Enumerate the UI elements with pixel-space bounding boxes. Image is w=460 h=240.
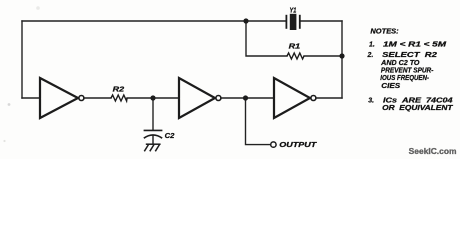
wire: R1 left drop from node B [246,21,287,56]
wire: R2 to inv2 input [127,97,179,99]
svg-text:NOTES:: NOTES: [370,28,398,35]
svg-text:2.: 2. [367,52,374,59]
op-amp U3 inverter 3 [274,78,316,118]
svg-text:CIES: CIES [381,83,400,90]
op-amp U2 inverter 2 [179,78,221,118]
crystal Y1 [286,14,299,30]
resistor R2 [111,95,127,101]
svg-text:IOUS FREQUEN-: IOUS FREQUEN- [380,75,429,82]
svg-text:SeekIC.com: SeekIC.com [409,146,457,156]
wire: right vertical (crystal net to inv3 output) [341,21,343,98]
output terminal [271,142,276,147]
svg-text:R2: R2 [113,86,125,93]
svg-text:AND C2 TO: AND C2 TO [380,60,420,67]
notes text block [367,28,454,112]
svg-text:R1: R1 [289,44,301,51]
wire: output tap down and right [246,98,271,145]
svg-text:Y1: Y1 [290,7,297,14]
wire: R1 right lead [304,55,342,57]
svg-text:1M < R1 < 5M: 1M < R1 < 5M [383,41,446,48]
wire: C2 branch down [152,98,154,130]
capacitor C2 [144,130,163,144]
node E junction (inv3 input / output tap) [243,95,248,100]
wire: top feedback horizontal [22,20,286,22]
scan speck [3,140,5,142]
svg-text:ICs ARE 74C04: ICs ARE 74C04 [383,98,453,105]
node B junction (crystal net left) [243,18,248,23]
svg-text:3.: 3. [368,98,374,105]
wire: inv1 output to R2 [84,97,111,99]
svg-text:PREVENT SPUR-: PREVENT SPUR- [381,68,434,75]
svg-text:OUTPUT: OUTPUT [279,142,317,149]
wire: inv2 output to inv3 input [221,97,274,99]
svg-text:OR EQUIVALENT: OR EQUIVALENT [382,105,453,112]
scan speck [36,6,40,10]
wire: inv3 output to right vertical [316,97,342,99]
ground [144,144,160,151]
wire: left feedback vertical [21,21,23,98]
wire: crystal right lead to top-right corner [300,20,342,22]
wire: inv1 input [22,97,40,99]
node D junction (R2 / C2) [150,95,155,100]
scan speck [8,103,11,106]
svg-text:1.: 1. [369,41,375,48]
svg-text:C2: C2 [165,133,175,140]
op-amp U1 inverter 1 [40,78,84,118]
svg-text:SELECT R2: SELECT R2 [382,52,437,59]
node C junction (crystal net right / R1) [339,53,344,58]
resistor R1 [287,53,304,59]
